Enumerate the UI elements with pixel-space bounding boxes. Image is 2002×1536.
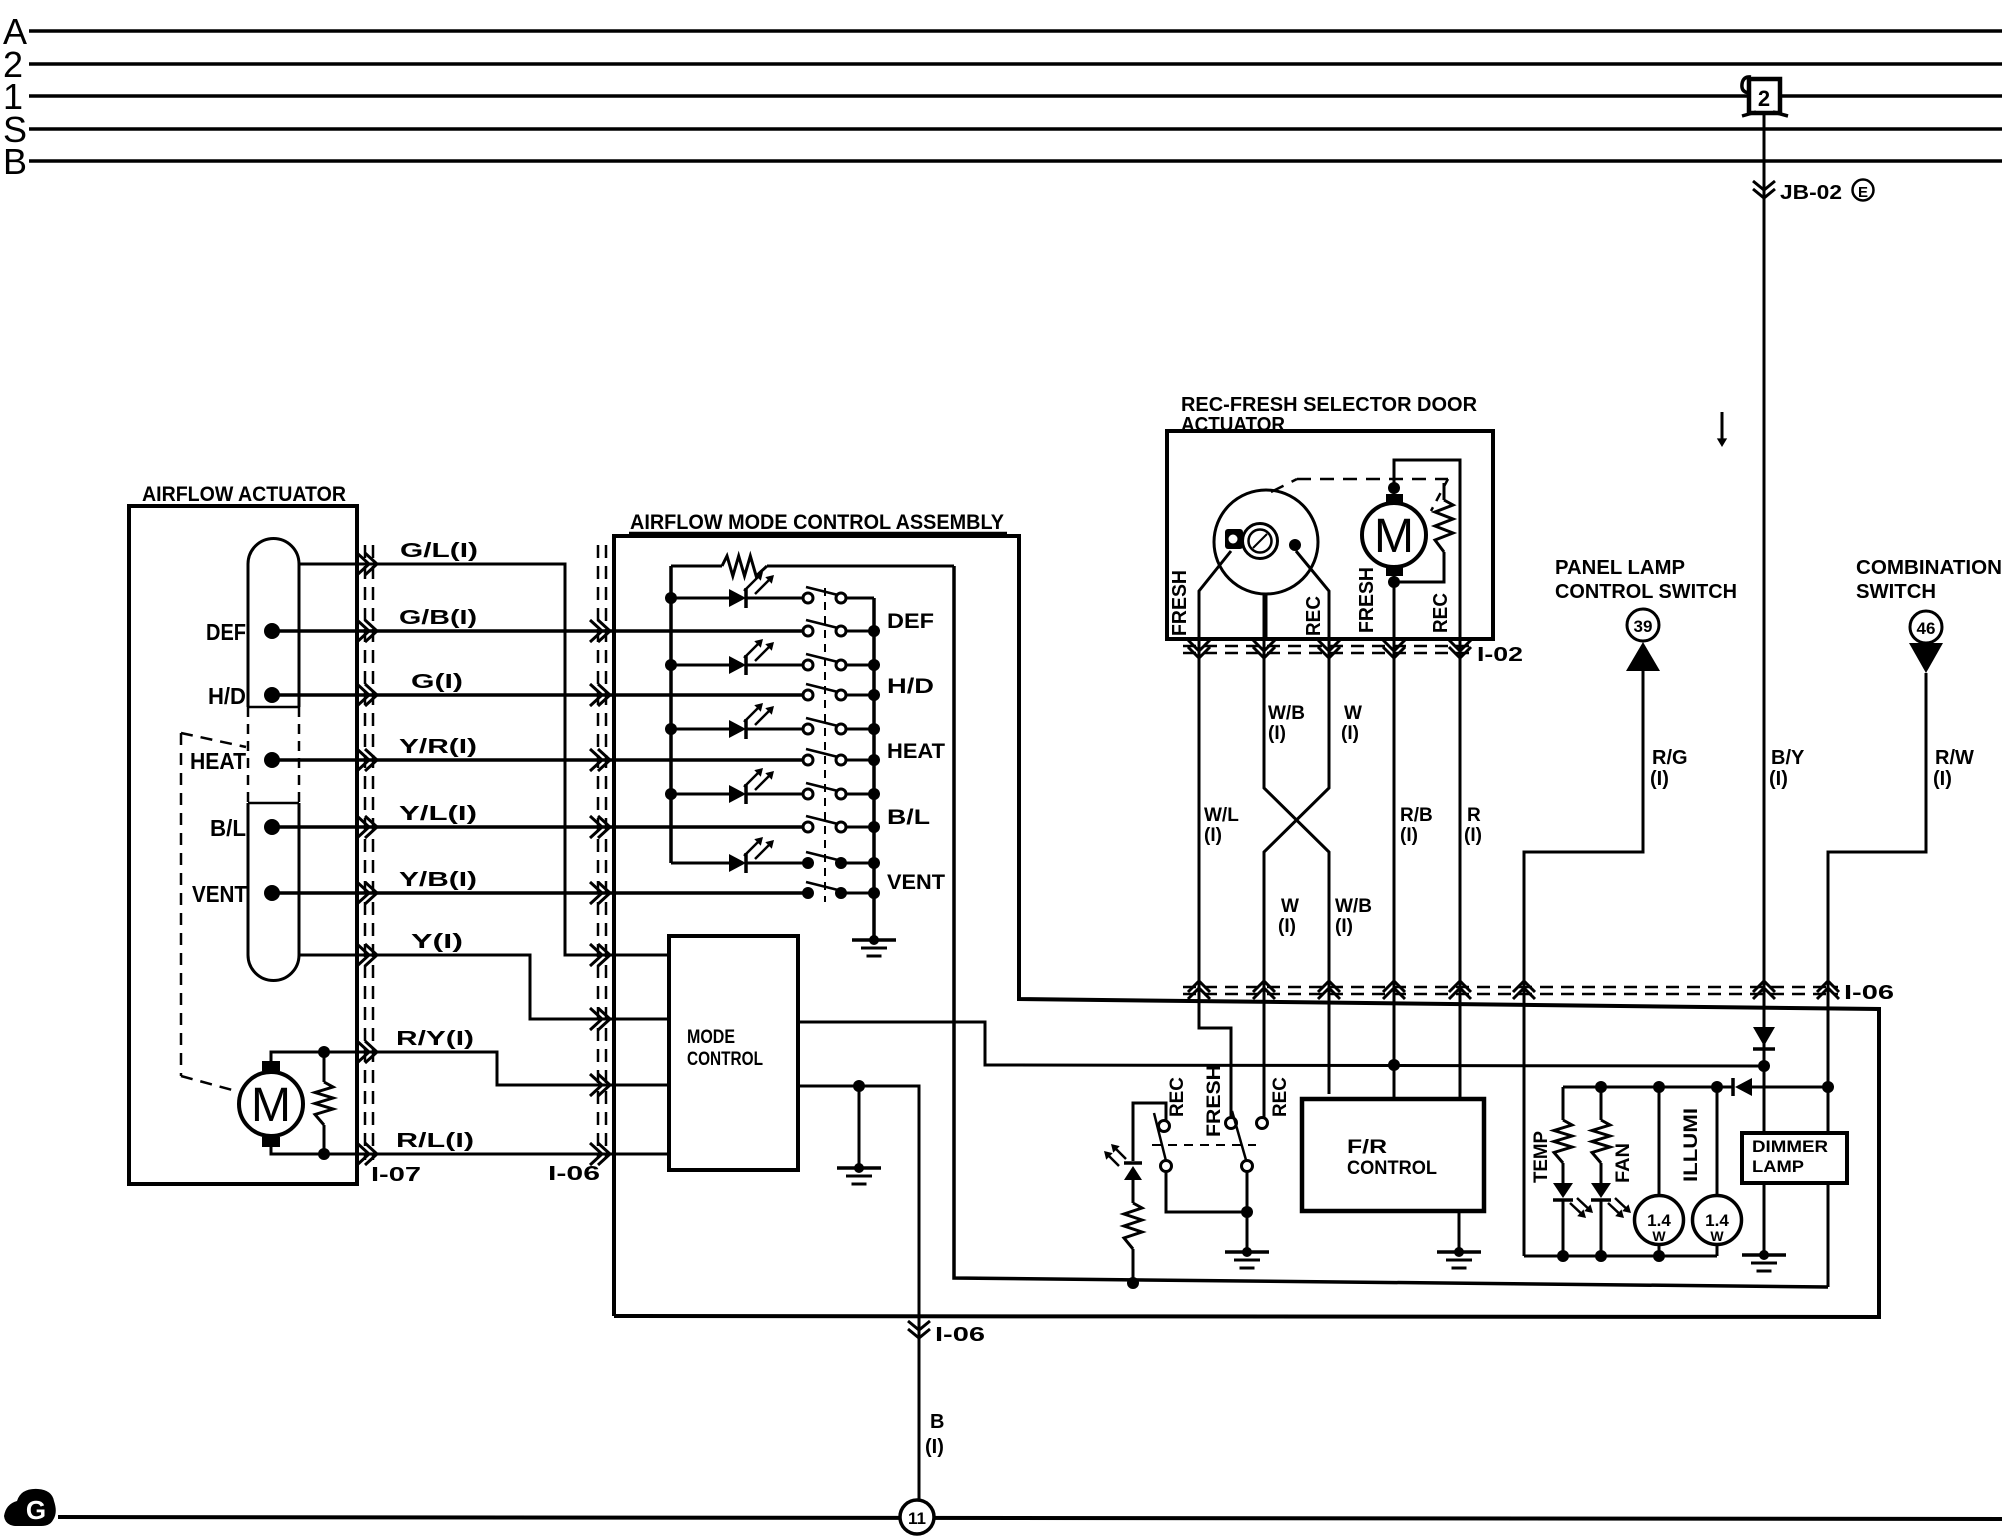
- contact H/D: [264, 687, 280, 703]
- svg-text:2: 2: [1758, 86, 1770, 111]
- lamp 1.4W #2: [1716, 1087, 1719, 1196]
- diode D8 (on B/Y): [1753, 1027, 1775, 1046]
- wire switch common rail: [872, 598, 876, 939]
- switch FRESH/REC selector (panel): [1226, 1118, 1237, 1129]
- wire wheel center tap: [1263, 593, 1268, 639]
- node lamp feed: [1711, 1081, 1723, 1093]
- wire R/G(I): [1524, 671, 1643, 1256]
- svg-text:11: 11: [908, 1509, 926, 1528]
- svg-text:G(I): G(I): [411, 671, 463, 693]
- svg-text:W: W: [1710, 1228, 1724, 1244]
- switch mode row LED4: [803, 789, 813, 799]
- svg-text:ILLUMI: ILLUMI: [1681, 1108, 1702, 1182]
- svg-text:COMBINATION: COMBINATION: [1856, 557, 2002, 579]
- switch gang link: [1152, 1144, 1256, 1146]
- connector circle 46: [1910, 611, 1942, 643]
- selector wheel: [1214, 490, 1318, 594]
- arrow from combination switch: [1909, 643, 1943, 673]
- LED D2 (mode indicator): [671, 664, 729, 667]
- connector I-02 chevron at x=1264: [1253, 640, 1275, 651]
- stadium divider: [248, 802, 299, 805]
- connector I-06 chevron at x=1524: [1513, 981, 1535, 992]
- MODE CONTROL unit box: [669, 936, 798, 1170]
- connector I-07 chevron at y=827: [357, 816, 369, 838]
- wire motor FRESH terminal: [1393, 584, 1396, 639]
- wire LED anode rail: [669, 566, 673, 863]
- wire W/L(I): [1199, 639, 1231, 1118]
- svg-text:(I): (I): [1933, 768, 1952, 790]
- LED TEMP: [1553, 1183, 1573, 1198]
- svg-text:B/Y: B/Y: [1771, 747, 1805, 769]
- svg-text:G/B(I): G/B(I): [399, 607, 477, 629]
- svg-text:R/G: R/G: [1652, 747, 1688, 769]
- connector I-07 chevron at y=695: [357, 684, 369, 706]
- connector I-02 chevron at x=1460: [1449, 640, 1471, 651]
- svg-text:I-02: I-02: [1477, 644, 1523, 666]
- contact VENT: [264, 885, 280, 901]
- connector I-06 chevron on B wire: [908, 1321, 930, 1330]
- connector I-06 chevron at x=1329: [1318, 981, 1340, 992]
- svg-text:FRESH: FRESH: [1169, 570, 1191, 636]
- node motor bottom: [1388, 576, 1400, 588]
- svg-text:R: R: [1467, 805, 1481, 826]
- switch mode row B/L: [803, 822, 813, 832]
- connector I-02 dashed line: [1183, 645, 1472, 648]
- svg-text:B: B: [3, 141, 27, 182]
- svg-text:TEMP: TEMP: [1531, 1131, 1552, 1183]
- small down arrow: [1721, 412, 1724, 444]
- svg-text:R/Y(I): R/Y(I): [396, 1028, 474, 1050]
- svg-text:HEAT: HEAT: [190, 748, 246, 774]
- REC-FRESH selector door actuator box: [1167, 431, 1493, 639]
- node ground tap: [853, 1080, 865, 1092]
- connector I-07 dashed line (vertical): [364, 545, 367, 1160]
- mechanical link (door) dashes: [181, 733, 246, 747]
- svg-text:FRESH: FRESH: [1204, 1065, 1225, 1137]
- svg-text:(I): (I): [1650, 768, 1669, 790]
- resistor R2 (position feedback): [1443, 483, 1446, 500]
- LED D6 (rec-fresh indicator) chain: [1133, 1103, 1166, 1161]
- svg-text:H/D: H/D: [208, 683, 246, 709]
- LED D1 (mode indicator): [671, 597, 729, 600]
- wire R/B(I): [1393, 639, 1396, 1099]
- stadium divider: [248, 706, 299, 709]
- ground body symbol G: [4, 1489, 56, 1526]
- svg-text:Y/R(I): Y/R(I): [399, 736, 477, 758]
- resistor R3 (mode LED feed): [671, 565, 722, 568]
- svg-text:CONTROL SWITCH: CONTROL SWITCH: [1555, 581, 1737, 603]
- svg-text:(I): (I): [1204, 825, 1222, 846]
- motor M1 (airflow door): [239, 1072, 303, 1136]
- svg-text:REC: REC: [1167, 1077, 1188, 1117]
- mechanical link dashes: [1271, 479, 1297, 492]
- svg-text:39: 39: [1634, 617, 1653, 636]
- svg-text:R/B: R/B: [1400, 805, 1433, 826]
- svg-text:I-06: I-06: [935, 1324, 985, 1346]
- node lamp feed: [1595, 1081, 1607, 1093]
- node motor top: [1388, 482, 1400, 494]
- connector I-07 chevron at y=893: [357, 882, 369, 904]
- wire lamp return rail: [1524, 1255, 1717, 1258]
- contact DEF: [264, 623, 280, 639]
- resistor R5 (TEMP): [1562, 1087, 1565, 1120]
- svg-text:46: 46: [1917, 619, 1936, 638]
- node B/Y illumination join: [1758, 1060, 1770, 1072]
- svg-text:MODE: MODE: [687, 1027, 735, 1048]
- svg-text:AIRFLOW MODE CONTROL ASSEMBLY: AIRFLOW MODE CONTROL ASSEMBLY: [630, 511, 1004, 534]
- wire H/D row: [272, 693, 803, 697]
- svg-text:I-06: I-06: [548, 1163, 600, 1185]
- svg-text:Y/L(I): Y/L(I): [399, 803, 477, 825]
- switch mode row LED3: [803, 724, 813, 734]
- ground (dimmer lamp): [1759, 1250, 1769, 1260]
- connector I-02 chevron at x=1329: [1318, 640, 1340, 651]
- switch mode row DEF: [803, 626, 813, 636]
- node lamp feed: [1653, 1081, 1665, 1093]
- connector I-06 chevron at y=1154: [590, 1143, 602, 1165]
- wire dimmer to ground: [1763, 1183, 1766, 1255]
- svg-text:DIMMER: DIMMER: [1752, 1137, 1828, 1156]
- connector JB-02 chevron: [1753, 181, 1775, 190]
- connector I-06 chevron at x=1199: [1188, 981, 1210, 992]
- wire F/R control ground: [1458, 1211, 1461, 1251]
- wire R/W(I): [1828, 673, 1926, 1133]
- ground (mode switch rail): [869, 935, 879, 945]
- lamp 1.4W #1: [1658, 1087, 1661, 1196]
- svg-text:(I): (I): [1335, 916, 1353, 937]
- contact HEAT: [264, 752, 280, 768]
- node: [318, 1046, 330, 1058]
- svg-text:E: E: [1858, 184, 1868, 201]
- connector I-06 chevron at y=695: [590, 684, 602, 706]
- svg-text:REC-FRESH SELECTOR DOOR: REC-FRESH SELECTOR DOOR: [1181, 394, 1478, 416]
- svg-text:CONTROL: CONTROL: [687, 1049, 763, 1070]
- wire W/B(I) to W(I) (crossover): [1264, 639, 1329, 1094]
- bottom ground bus line: [58, 1517, 2002, 1519]
- ground (rec-fresh switch): [1242, 1247, 1252, 1257]
- svg-text:FAN: FAN: [1613, 1143, 1634, 1183]
- svg-text:CONTROL: CONTROL: [1347, 1158, 1437, 1179]
- arrow to panel lamp control switch: [1626, 642, 1660, 671]
- svg-text:W/L: W/L: [1204, 805, 1239, 826]
- wire R/L(I): [271, 1147, 669, 1154]
- wire DEF row: [272, 629, 803, 633]
- svg-text:DEF: DEF: [206, 619, 246, 645]
- diode D7: [1731, 1078, 1735, 1096]
- svg-text:W: W: [1281, 896, 1299, 917]
- switch mode row VENT: [802, 887, 814, 899]
- connector I-06 chevron at y=760: [590, 749, 602, 771]
- svg-text:M: M: [251, 1079, 291, 1132]
- bus line 1: [29, 94, 2002, 98]
- bus line 2: [29, 62, 2002, 66]
- AIRFLOW ACTUATOR box: [129, 506, 357, 1184]
- wire FRESH terminal from wheel: [1199, 551, 1231, 639]
- connector I-06 chevron at x=1764: [1753, 981, 1775, 992]
- stadium dashed edge (HEAT): [298, 707, 301, 803]
- ground (F/R control): [1454, 1247, 1464, 1257]
- svg-text:B: B: [930, 1411, 944, 1433]
- svg-text:I-07: I-07: [371, 1164, 421, 1186]
- svg-text:FRESH: FRESH: [1356, 567, 1378, 633]
- wire B/Y vertical from connector 2 down to dimmer lamp: [1763, 113, 1766, 1133]
- svg-text:HEAT: HEAT: [887, 740, 945, 763]
- resistor R6 (FAN): [1600, 1087, 1603, 1120]
- svg-text:REC: REC: [1430, 593, 1452, 633]
- wiper right contact: [1289, 539, 1301, 551]
- connector I-06 chevron at y=631: [590, 620, 602, 642]
- wire from resistor line down to illumination feed: [954, 566, 1828, 1287]
- connector I-06 dashed line (horizontal): [1183, 986, 1838, 989]
- LED FAN: [1591, 1183, 1611, 1198]
- svg-text:W: W: [1652, 1228, 1666, 1244]
- wire G/L(I): [299, 564, 669, 955]
- node: [1127, 1277, 1139, 1289]
- contact B/L: [264, 819, 280, 835]
- connector I-06 chevron at y=1019: [590, 1008, 602, 1030]
- svg-text:LAMP: LAMP: [1752, 1157, 1804, 1176]
- connector I-06 chevron at y=827: [590, 816, 602, 838]
- svg-text:(I): (I): [1464, 825, 1482, 846]
- wire R(I): [1459, 639, 1462, 1099]
- connector I-06 chevron at x=1264: [1253, 981, 1275, 992]
- svg-text:G: G: [26, 1495, 46, 1525]
- wire HEAT row: [272, 758, 803, 762]
- resistor R1 (airflow feedback): [323, 1052, 326, 1082]
- svg-text:(I): (I): [1268, 723, 1286, 744]
- svg-text:B/L: B/L: [887, 806, 930, 829]
- wire illumination rail (diode line): [1563, 1086, 1733, 1089]
- node: [1241, 1206, 1253, 1218]
- wiper left contact: [1225, 529, 1243, 549]
- svg-text:(I): (I): [1341, 723, 1359, 744]
- svg-text:(I): (I): [1400, 825, 1418, 846]
- ground (mode control): [854, 1163, 864, 1173]
- connector I-02 chevron at x=1199: [1188, 640, 1210, 651]
- svg-text:REC: REC: [1270, 1077, 1291, 1117]
- wire VENT row: [272, 891, 803, 895]
- svg-text:JB-02: JB-02: [1780, 182, 1842, 204]
- connector I-07 chevron at y=631: [357, 620, 369, 642]
- svg-text:W: W: [1344, 703, 1362, 724]
- switch mode row LED1: [803, 593, 813, 603]
- connector circle 11: [900, 1500, 934, 1534]
- svg-text:M: M: [1374, 510, 1414, 563]
- connector I-07 chevron at y=955: [357, 944, 369, 966]
- svg-text:R/L(I): R/L(I): [396, 1130, 474, 1152]
- AIRFLOW MODE CONTROL ASSEMBLY enclosure: [614, 536, 1879, 1317]
- svg-text:VENT: VENT: [192, 881, 247, 907]
- connector I-06 chevron at x=1828: [1817, 981, 1839, 992]
- svg-text:W/B: W/B: [1268, 703, 1305, 724]
- svg-text:(I): (I): [1278, 916, 1296, 937]
- wire B/L row: [272, 825, 803, 829]
- selector stadium body: [248, 539, 299, 981]
- connector I-06 dashed line (vertical): [597, 545, 600, 1158]
- svg-text:SWITCH: SWITCH: [1856, 581, 1936, 603]
- bus line S: [29, 127, 2002, 131]
- wire REC terminal from wheel: [1296, 551, 1329, 639]
- wire Y(I): [299, 955, 669, 1019]
- connector I-07 chevron at y=1154: [357, 1143, 369, 1165]
- switch mode row H/D: [803, 690, 813, 700]
- svg-text:Y(I): Y(I): [411, 931, 463, 953]
- svg-text:PANEL LAMP: PANEL LAMP: [1555, 557, 1685, 579]
- LED D5 (mode indicator): [671, 862, 729, 865]
- wire motor loop to REC terminal: [1394, 460, 1460, 639]
- switch mode row LED2: [803, 660, 813, 670]
- stadium dashed edge (HEAT): [247, 707, 250, 803]
- svg-text:F/R: F/R: [1347, 1137, 1387, 1158]
- LED D4 (mode indicator): [671, 793, 729, 796]
- wire R/Y(I): [271, 1052, 669, 1085]
- wire switch commons: [1166, 1172, 1247, 1212]
- svg-text:AIRFLOW ACTUATOR: AIRFLOW ACTUATOR: [142, 483, 346, 506]
- F/R CONTROL unit box: [1302, 1099, 1484, 1211]
- svg-text:(I): (I): [925, 1436, 944, 1458]
- svg-text:DEF: DEF: [887, 610, 934, 633]
- bus line B: [29, 159, 2002, 163]
- connector I-02 chevron at x=1394: [1383, 640, 1405, 651]
- connector I-06 chevron at x=1460: [1449, 981, 1471, 992]
- svg-text:Y/B(I): Y/B(I): [399, 869, 477, 891]
- svg-text:(I): (I): [1769, 768, 1788, 790]
- node: [318, 1148, 330, 1160]
- svg-text:G/L(I): G/L(I): [400, 540, 478, 562]
- connector I-06 chevron at y=893: [590, 882, 602, 904]
- connector I-06 chevron at x=1394: [1383, 981, 1405, 992]
- bus line A: [29, 29, 2002, 33]
- motor M2 (rec-fresh door): [1362, 503, 1426, 567]
- circled E: [1853, 180, 1874, 201]
- svg-text:B/L: B/L: [210, 815, 246, 841]
- svg-text:VENT: VENT: [887, 871, 945, 894]
- switch mode row HEAT: [803, 755, 813, 765]
- connector I-07 chevron at y=564: [357, 553, 369, 575]
- svg-text:W/B: W/B: [1335, 896, 1372, 917]
- DIMMER LAMP box: [1742, 1133, 1847, 1183]
- switch gang link (dashed): [824, 588, 826, 902]
- connector I-06 chevron at y=955: [590, 944, 602, 966]
- connector 2 on bus line 1: [1749, 79, 1780, 113]
- switch REC (panel): [1159, 1121, 1170, 1132]
- wire dimmer illumination out: [1827, 1183, 1830, 1287]
- wire mode control illumination feed: [798, 1022, 1764, 1066]
- wire mode control ground / B(I): [798, 1086, 919, 1499]
- svg-text:I-06: I-06: [1844, 982, 1894, 1004]
- wire W(I) to W/B(I) (crossover): [1264, 639, 1329, 1118]
- switch mode row LED5: [802, 857, 814, 869]
- resistor R4: [1124, 1203, 1142, 1249]
- svg-text:H/D: H/D: [887, 675, 934, 698]
- node R/B illumination tap: [1388, 1059, 1400, 1071]
- node R/W dimmer join: [1822, 1081, 1834, 1093]
- svg-text:REC: REC: [1303, 596, 1325, 636]
- connector I-07 chevron at y=1052: [357, 1041, 369, 1063]
- LED D3 (mode indicator): [671, 728, 729, 731]
- connector I-06 chevron at y=1085: [590, 1074, 602, 1096]
- connector circle 39: [1627, 609, 1659, 641]
- connector I-07 chevron at y=760: [357, 749, 369, 771]
- svg-text:R/W: R/W: [1935, 747, 1974, 769]
